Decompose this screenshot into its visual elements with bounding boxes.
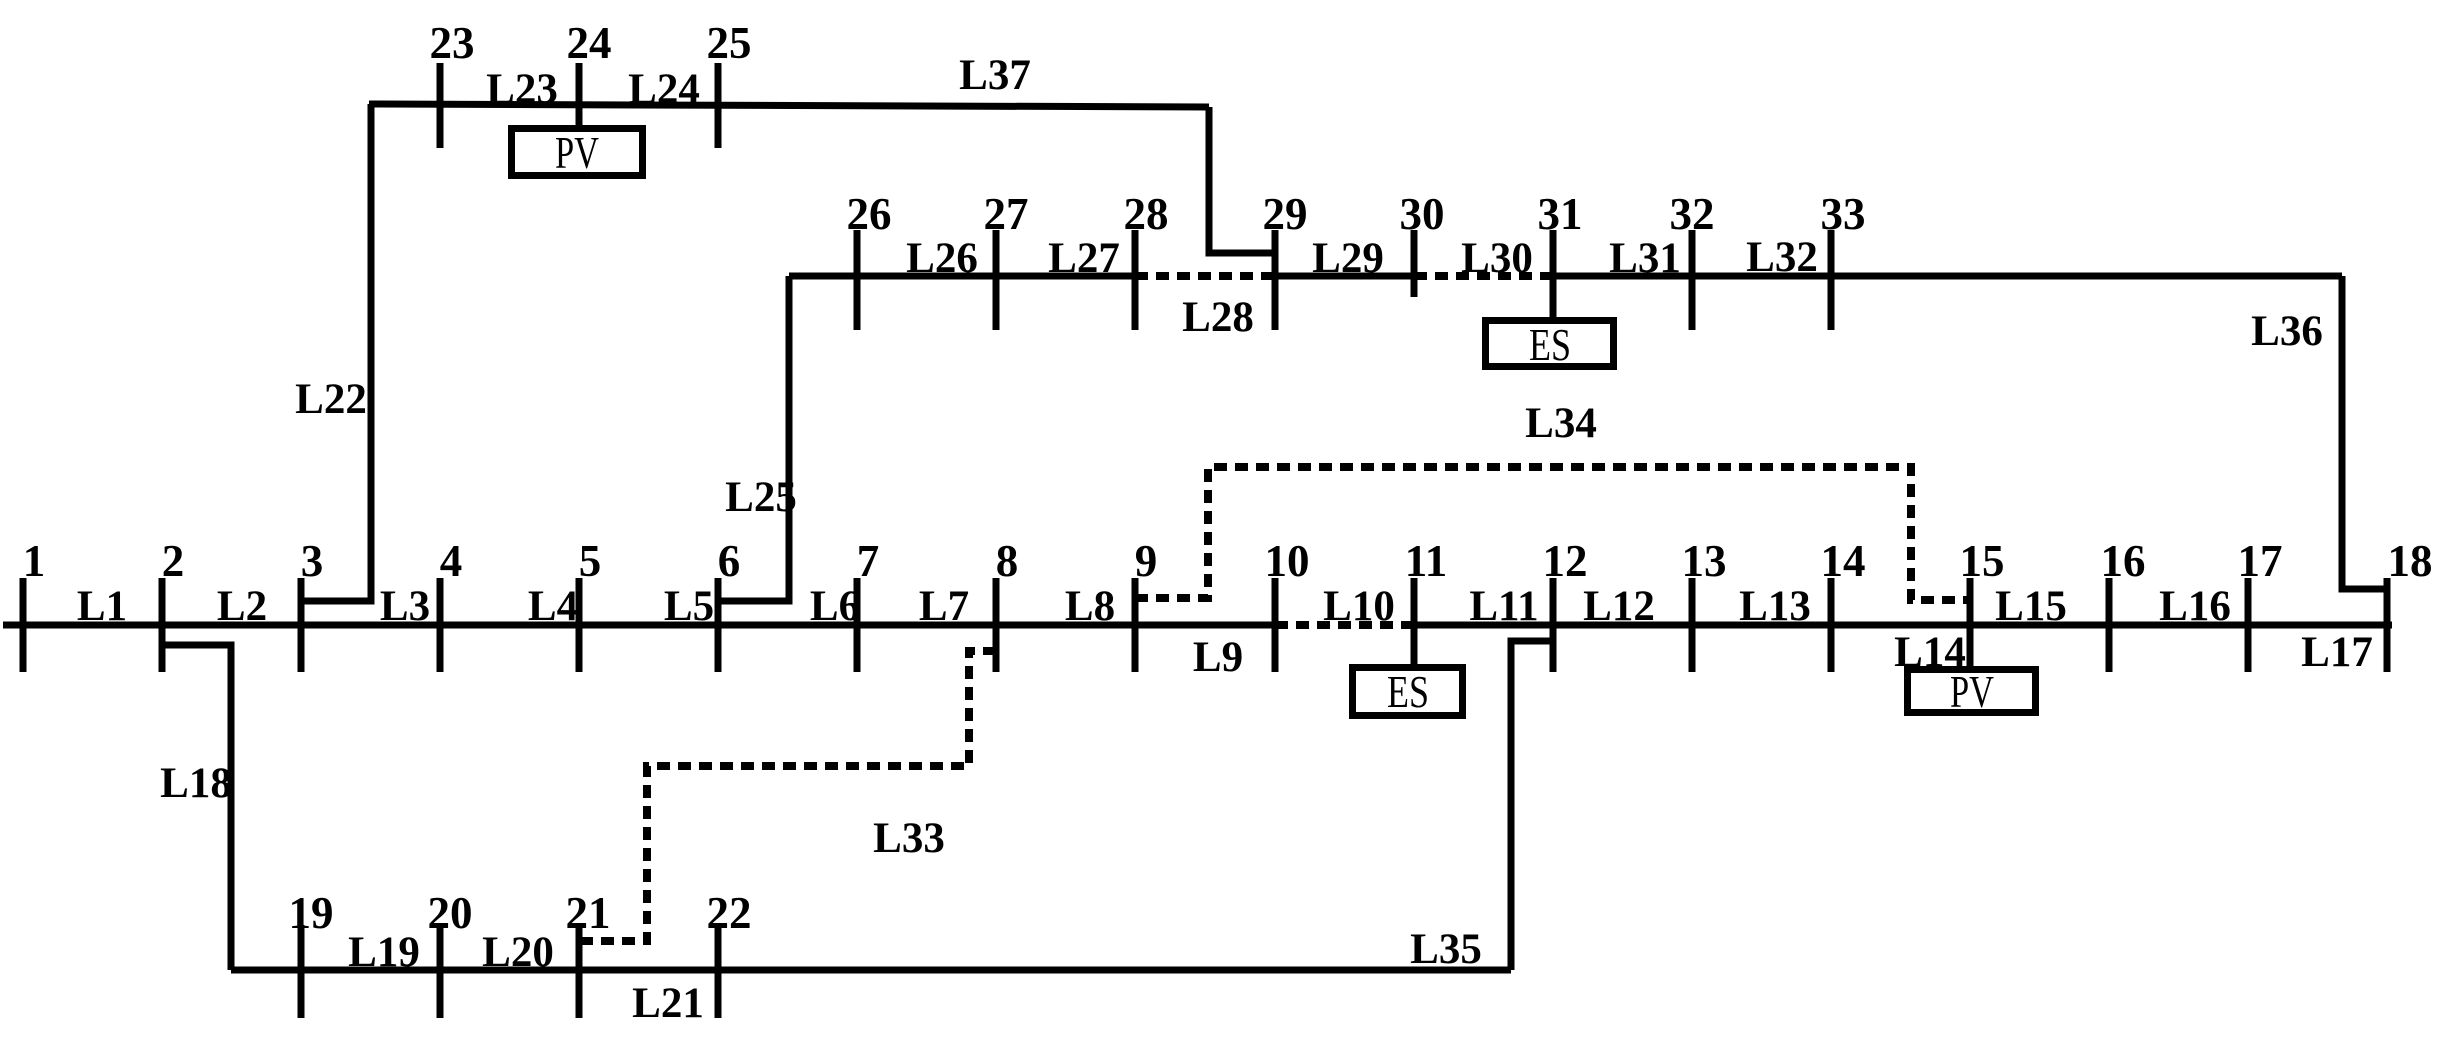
bus 23 bbox=[437, 63, 444, 148]
svg-text:24: 24 bbox=[567, 18, 612, 68]
svg-text:L7: L7 bbox=[919, 583, 969, 630]
wire second feeder segment L31-L32 bbox=[1553, 273, 2342, 280]
svg-text:27: 27 bbox=[984, 189, 1029, 239]
bus 18 bbox=[2384, 578, 2391, 672]
svg-text:33: 33 bbox=[1821, 189, 1866, 239]
svg-text:15: 15 bbox=[1960, 536, 2005, 586]
ES box at bus 31 bbox=[1486, 321, 1614, 367]
bus 5 bbox=[576, 578, 583, 672]
svg-text:L33: L33 bbox=[873, 815, 945, 862]
bus 33 bbox=[1828, 230, 1835, 330]
svg-text:8: 8 bbox=[996, 536, 1019, 586]
svg-text:L37: L37 bbox=[959, 52, 1031, 99]
svg-text:31: 31 bbox=[1538, 189, 1583, 239]
svg-text:19: 19 bbox=[289, 888, 334, 938]
svg-text:17: 17 bbox=[2238, 536, 2283, 586]
wire L25 branch bus6 to second feeder bbox=[718, 276, 789, 601]
bus 13 bbox=[1689, 578, 1696, 672]
wire main feeder segment L1-L9 bbox=[3, 622, 1275, 629]
svg-text:L6: L6 bbox=[810, 583, 860, 630]
bus 1 bbox=[20, 578, 27, 672]
wire L34 dashed tie bus9-bus15 bbox=[1135, 467, 1970, 600]
svg-text:32: 32 bbox=[1670, 189, 1715, 239]
svg-text:21: 21 bbox=[566, 888, 611, 938]
bus 28 bbox=[1132, 230, 1139, 330]
wire main feeder segment L11-L17 bbox=[1414, 622, 2392, 629]
svg-text:PV: PV bbox=[555, 127, 599, 178]
svg-text:L11: L11 bbox=[1469, 583, 1538, 630]
svg-text:25: 25 bbox=[707, 18, 752, 68]
svg-text:22: 22 bbox=[707, 888, 752, 938]
svg-text:29: 29 bbox=[1263, 189, 1308, 239]
svg-text:L22: L22 bbox=[295, 376, 367, 423]
svg-text:L23: L23 bbox=[486, 66, 558, 113]
wire L29 segment bbox=[1275, 273, 1414, 280]
wire bottom feeder run bbox=[231, 967, 1511, 974]
bus 24 bbox=[576, 63, 583, 128]
svg-text:16: 16 bbox=[2101, 536, 2146, 586]
svg-text:18: 18 bbox=[2388, 536, 2433, 586]
wire L30 dashed segment bus30-bus31 bbox=[1414, 272, 1553, 280]
svg-text:L26: L26 bbox=[906, 235, 978, 282]
svg-text:10: 10 bbox=[1265, 536, 1310, 586]
bus 26 bbox=[854, 230, 861, 330]
bus 14 bbox=[1828, 578, 1835, 672]
svg-text:L25: L25 bbox=[725, 474, 797, 521]
svg-text:L32: L32 bbox=[1746, 234, 1818, 281]
bus 11 bbox=[1411, 578, 1418, 667]
bus 22 bbox=[715, 925, 722, 1018]
svg-text:L10: L10 bbox=[1323, 583, 1395, 630]
bus 6 bbox=[715, 578, 722, 672]
svg-text:ES: ES bbox=[1387, 666, 1429, 717]
bus 16 bbox=[2106, 578, 2113, 672]
bus 15 bbox=[1967, 578, 1974, 669]
bus 32 bbox=[1689, 230, 1696, 330]
svg-text:26: 26 bbox=[847, 189, 892, 239]
svg-text:L21: L21 bbox=[632, 980, 704, 1027]
svg-text:L15: L15 bbox=[1995, 583, 2067, 630]
svg-text:23: 23 bbox=[430, 18, 475, 68]
svg-text:11: 11 bbox=[1405, 536, 1448, 586]
wire L10 dashed segment bus10-bus11 bbox=[1275, 621, 1414, 629]
svg-text:L1: L1 bbox=[77, 583, 127, 630]
svg-text:L29: L29 bbox=[1312, 235, 1384, 282]
bus 30 bbox=[1411, 230, 1418, 297]
svg-text:2: 2 bbox=[162, 536, 185, 586]
bus 25 bbox=[715, 63, 722, 148]
wire second feeder segment L26-L27 bbox=[789, 273, 1135, 280]
PV box at bus 24 bbox=[512, 129, 643, 176]
bus 21 bbox=[576, 925, 583, 1018]
PV box at bus 15 bbox=[1908, 670, 2036, 713]
svg-text:14: 14 bbox=[1821, 536, 1866, 586]
wire L36 drop to bus 18 bbox=[2342, 276, 2387, 589]
bus 27 bbox=[993, 230, 1000, 330]
bus 17 bbox=[2245, 578, 2252, 672]
bus 31 bbox=[1550, 230, 1557, 320]
svg-text:L3: L3 bbox=[380, 583, 430, 630]
svg-text:28: 28 bbox=[1124, 189, 1169, 239]
svg-text:7: 7 bbox=[857, 536, 880, 586]
wire L18 branch from bus 2 bbox=[162, 645, 231, 970]
svg-text:1: 1 bbox=[23, 536, 46, 586]
svg-text:4: 4 bbox=[440, 536, 463, 586]
svg-text:L18: L18 bbox=[160, 760, 232, 807]
bus 12 bbox=[1550, 578, 1557, 672]
svg-text:20: 20 bbox=[428, 888, 473, 938]
bus 19 bbox=[298, 925, 305, 1018]
svg-text:L2: L2 bbox=[217, 583, 267, 630]
svg-text:L8: L8 bbox=[1065, 583, 1115, 630]
wire L33 dashed tie bus8-bus21 bbox=[579, 651, 996, 941]
svg-text:L34: L34 bbox=[1525, 400, 1597, 447]
svg-text:L16: L16 bbox=[2159, 583, 2231, 630]
bus 4 bbox=[437, 578, 444, 672]
svg-text:L30: L30 bbox=[1461, 235, 1533, 282]
bus 7 bbox=[854, 578, 861, 672]
svg-text:L31: L31 bbox=[1609, 235, 1681, 282]
svg-text:5: 5 bbox=[579, 536, 602, 586]
svg-text:3: 3 bbox=[301, 536, 324, 586]
wire L28 dashed segment bus28-bus29 bbox=[1135, 272, 1275, 280]
svg-text:12: 12 bbox=[1543, 536, 1588, 586]
svg-text:L12: L12 bbox=[1583, 583, 1655, 630]
wire L22 branch bus3 to top feeder bbox=[301, 104, 371, 601]
svg-text:ES: ES bbox=[1529, 319, 1571, 370]
svg-text:9: 9 bbox=[1135, 536, 1158, 586]
svg-text:30: 30 bbox=[1400, 189, 1445, 239]
svg-text:L9: L9 bbox=[1193, 634, 1243, 681]
svg-text:L4: L4 bbox=[528, 583, 578, 630]
svg-text:L36: L36 bbox=[2251, 308, 2323, 355]
svg-text:L24: L24 bbox=[628, 66, 700, 113]
wire L37 drop to bus 29 bbox=[1209, 107, 1275, 253]
ES box at bus 11 bbox=[1353, 668, 1463, 716]
wire L35 branch bus12 to bottom feeder bbox=[1511, 641, 1553, 970]
svg-text:PV: PV bbox=[1950, 666, 1994, 717]
svg-text:L35: L35 bbox=[1410, 926, 1482, 973]
wire top feeder L23-L24-L37 bbox=[369, 104, 1209, 107]
bus 3 bbox=[298, 578, 305, 672]
bus 2 bbox=[159, 578, 166, 672]
svg-text:6: 6 bbox=[718, 536, 741, 586]
bus 8 bbox=[993, 578, 1000, 672]
svg-text:L20: L20 bbox=[482, 929, 554, 976]
bus 10 bbox=[1272, 578, 1279, 672]
svg-text:L5: L5 bbox=[664, 583, 714, 630]
bus 20 bbox=[437, 925, 444, 1018]
svg-text:L13: L13 bbox=[1739, 583, 1811, 630]
bus 9 bbox=[1132, 578, 1139, 672]
svg-text:L17: L17 bbox=[2301, 629, 2373, 676]
bus 29 bbox=[1272, 230, 1279, 330]
svg-text:L27: L27 bbox=[1048, 235, 1120, 282]
svg-text:L28: L28 bbox=[1182, 294, 1254, 341]
svg-text:13: 13 bbox=[1682, 536, 1727, 586]
svg-text:L19: L19 bbox=[348, 929, 420, 976]
